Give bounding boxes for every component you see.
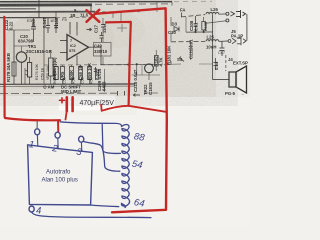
svg-text:R176 10K: R176 10K	[35, 63, 39, 80]
svg-text:470µF/25V: 470µF/25V	[80, 100, 115, 107]
svg-text:1E: 1E	[50, 18, 55, 23]
svg-text:C59 1B: C59 1B	[41, 67, 45, 80]
svg-text:4: 4	[36, 206, 41, 217]
svg-text:64: 64	[133, 197, 145, 210]
svg-text:R60 561: R60 561	[53, 70, 57, 84]
svg-text:F5: F5	[62, 17, 67, 22]
svg-text:E3: E3	[27, 18, 33, 23]
svg-text:C55: C55	[81, 77, 85, 84]
svg-text:Alan 100 plus: Alan 100 plus	[42, 178, 78, 184]
svg-text:R57: R57	[90, 77, 94, 84]
svg-text:→: →	[240, 91, 244, 96]
svg-text:Autotrafo: Autotrafo	[46, 170, 71, 176]
svg-text:EXT.SP: EXT.SP	[233, 61, 248, 66]
svg-text:C47: C47	[218, 51, 225, 55]
svg-text:PG-5: PG-5	[225, 91, 236, 96]
svg-text:PA.1P: PA.1P	[231, 34, 243, 39]
svg-text:R58: R58	[72, 77, 76, 84]
svg-text:54: 54	[131, 159, 143, 172]
svg-text:VR5 10A: VR5 10A	[46, 65, 50, 80]
svg-text:C56: C56	[63, 77, 67, 84]
